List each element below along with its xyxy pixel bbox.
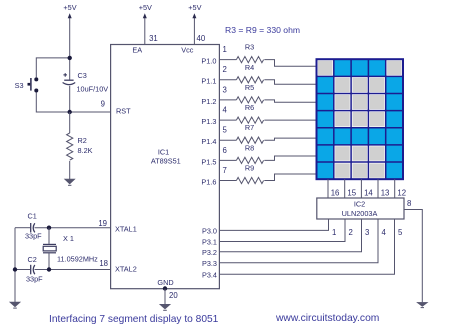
svg-text:P3.1: P3.1: [202, 238, 217, 247]
svg-text:RST: RST: [116, 107, 131, 116]
svg-text:12: 12: [397, 189, 406, 198]
svg-text:8.2K: 8.2K: [78, 146, 93, 155]
svg-text:R3 = R9 = 330 ohm: R3 = R9 = 330 ohm: [225, 25, 300, 35]
svg-text:ULN2003A: ULN2003A: [342, 209, 378, 218]
svg-text:2: 2: [223, 65, 227, 74]
svg-text:33pF: 33pF: [25, 232, 42, 241]
svg-text:P3.0: P3.0: [202, 227, 217, 236]
svg-text:P1.1: P1.1: [201, 77, 216, 86]
svg-text:14: 14: [364, 189, 373, 198]
svg-text:19: 19: [98, 219, 107, 228]
svg-text:18: 18: [99, 259, 108, 268]
svg-text:4: 4: [382, 228, 387, 237]
svg-text:P1.2: P1.2: [201, 97, 216, 106]
svg-text:8: 8: [407, 199, 411, 208]
svg-text:C1: C1: [28, 212, 37, 221]
svg-text:+5V: +5V: [188, 3, 201, 12]
svg-text:C3: C3: [78, 71, 87, 80]
svg-text:X 1: X 1: [63, 234, 74, 243]
svg-text:+5V: +5V: [139, 3, 152, 12]
svg-text:1: 1: [332, 228, 336, 237]
svg-text:1: 1: [223, 45, 227, 54]
svg-text:R8: R8: [245, 143, 254, 152]
svg-text:6: 6: [223, 146, 227, 155]
svg-text:R7: R7: [245, 123, 254, 132]
svg-text:P1.3: P1.3: [201, 117, 216, 126]
svg-text:R6: R6: [245, 103, 254, 112]
svg-text:R5: R5: [245, 83, 254, 92]
svg-text:+5V: +5V: [63, 3, 76, 12]
svg-text:AT89S51: AT89S51: [151, 157, 181, 166]
svg-text:P1.6: P1.6: [201, 177, 216, 186]
svg-text:2: 2: [349, 228, 353, 237]
svg-text:5: 5: [223, 126, 228, 135]
svg-text:33pF: 33pF: [26, 275, 43, 284]
svg-text:IC1: IC1: [158, 148, 169, 157]
svg-text:3: 3: [223, 85, 227, 94]
svg-text:31: 31: [149, 34, 158, 43]
svg-text:9: 9: [101, 100, 105, 109]
svg-text:20: 20: [169, 291, 178, 300]
svg-text:5: 5: [398, 228, 403, 237]
svg-text:www.circuitstoday.com: www.circuitstoday.com: [275, 313, 379, 324]
svg-text:Interfacing 7 segment display: Interfacing 7 segment display to 8051: [49, 314, 219, 325]
svg-text:R2: R2: [78, 136, 87, 145]
svg-text:R3: R3: [245, 43, 254, 52]
svg-text:10uF/10V: 10uF/10V: [77, 85, 109, 94]
svg-text:R4: R4: [245, 63, 254, 72]
svg-text:11.0592MHz: 11.0592MHz: [57, 255, 98, 264]
svg-text:XTAL2: XTAL2: [115, 265, 137, 274]
svg-text:XTAL1: XTAL1: [115, 224, 137, 233]
svg-text:40: 40: [197, 34, 206, 43]
svg-text:4: 4: [223, 106, 228, 115]
svg-text:3: 3: [365, 228, 369, 237]
svg-text:P3.4: P3.4: [202, 270, 217, 279]
svg-text:7: 7: [223, 166, 227, 175]
svg-text:P1.5: P1.5: [201, 157, 216, 166]
svg-text:P1.4: P1.4: [201, 137, 216, 146]
svg-text:C2: C2: [28, 255, 37, 264]
svg-text:EA: EA: [132, 46, 142, 55]
svg-text:IC2: IC2: [354, 200, 365, 209]
svg-text:16: 16: [331, 189, 340, 198]
svg-text:R9: R9: [245, 164, 254, 173]
svg-text:GND: GND: [157, 278, 173, 287]
svg-text:S3: S3: [15, 81, 24, 90]
svg-text:P3.2: P3.2: [202, 248, 217, 257]
svg-text:15: 15: [347, 189, 356, 198]
svg-text:13: 13: [381, 189, 390, 198]
svg-text:P3.3: P3.3: [202, 259, 217, 268]
svg-text:P1.0: P1.0: [201, 57, 216, 66]
svg-text:Vcc: Vcc: [181, 46, 194, 55]
